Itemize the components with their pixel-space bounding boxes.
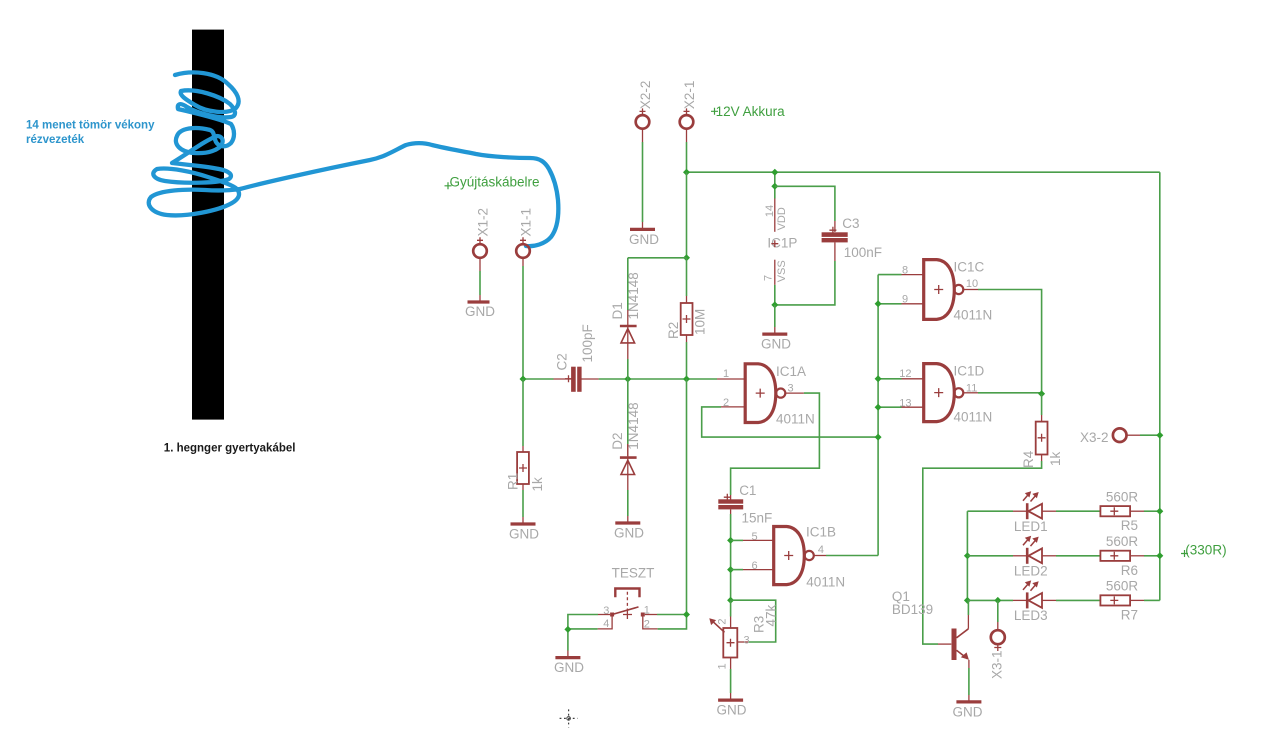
svg-text:4: 4 bbox=[818, 544, 824, 556]
svg-text:R7: R7 bbox=[1121, 607, 1138, 622]
wire node down to D2 bbox=[627, 379, 629, 456]
svg-text:R5: R5 bbox=[1121, 518, 1138, 533]
nand gate IC1A bbox=[717, 364, 815, 427]
wire LED anode bus bbox=[966, 511, 968, 600]
svg-text:D1: D1 bbox=[610, 302, 625, 319]
connector X1-1 bbox=[516, 208, 533, 258]
wire 12V bus horizontal bbox=[687, 171, 1160, 173]
capacitor C3 bbox=[822, 216, 882, 260]
svg-text:IC1D: IC1D bbox=[954, 363, 985, 378]
svg-text:GND: GND bbox=[717, 703, 747, 718]
svg-text:LED3: LED3 bbox=[1014, 608, 1048, 623]
junction X3-2/rail bbox=[1156, 432, 1163, 439]
connector X2-2 bbox=[636, 81, 653, 129]
svg-text:47k: 47k bbox=[764, 604, 779, 626]
svg-text:R6: R6 bbox=[1121, 563, 1138, 578]
green label (330R) bbox=[1181, 543, 1227, 558]
svg-text:100nF: 100nF bbox=[844, 245, 882, 260]
junction TESZT left bbox=[564, 626, 571, 633]
wire to GND under IC1P bbox=[774, 305, 776, 334]
wire TESZT right to rail bbox=[657, 615, 687, 629]
svg-text:(330R): (330R) bbox=[1185, 543, 1226, 558]
svg-text:GND: GND bbox=[629, 232, 659, 247]
ground GND under R1 bbox=[509, 524, 539, 541]
svg-text:15nF: 15nF bbox=[742, 511, 773, 526]
wire X1-1 down to node bbox=[522, 258, 524, 379]
junction pin9/bus bbox=[875, 300, 882, 307]
svg-text:1: 1 bbox=[717, 663, 729, 669]
svg-text:GND: GND bbox=[465, 304, 495, 319]
svg-text:2: 2 bbox=[717, 618, 729, 624]
junction LED3 row / collector bbox=[964, 597, 971, 604]
svg-text:LED2: LED2 bbox=[1014, 564, 1048, 579]
svg-text:4011N: 4011N bbox=[954, 409, 993, 424]
wire right vertical 12V rail bbox=[1159, 172, 1161, 600]
ground GND under TESZT bbox=[554, 658, 584, 675]
LED LED1 bbox=[967, 491, 1056, 534]
wire R3 pin2 up to node bbox=[730, 600, 732, 616]
svg-text:TESZT: TESZT bbox=[612, 566, 655, 581]
svg-text:4011N: 4011N bbox=[776, 411, 815, 426]
resistor R7 bbox=[1056, 579, 1160, 623]
wire Q1 collector bbox=[967, 600, 968, 615]
svg-text:560R: 560R bbox=[1106, 534, 1139, 549]
wire X3-2 to rail bbox=[1127, 434, 1160, 436]
svg-text:1k: 1k bbox=[530, 477, 545, 492]
connector X1-2 bbox=[473, 208, 490, 258]
svg-text:1N4148: 1N4148 bbox=[626, 402, 641, 449]
wire X1-2 to GND bbox=[479, 258, 481, 302]
junction R5/rail bbox=[1156, 508, 1163, 515]
junction feedback/bus bbox=[875, 434, 882, 441]
svg-text:rézvezeték: rézvezeték bbox=[26, 134, 85, 146]
junction VDD/C3 bbox=[771, 183, 778, 190]
ground GND under D2 bbox=[614, 523, 644, 540]
wire bus to VDD bbox=[774, 172, 776, 198]
power symbol IC1P VDD pin 14 bbox=[764, 199, 797, 251]
junction node at R2 bbox=[683, 376, 690, 383]
junction R3 node bbox=[727, 597, 734, 604]
wire IC1B pin6 bbox=[731, 569, 743, 571]
junction X3-1 tap bbox=[994, 597, 1001, 604]
wire C3 bottom branch bbox=[775, 242, 835, 305]
svg-text:560R: 560R bbox=[1106, 489, 1139, 504]
junction TESZT right bbox=[683, 611, 690, 618]
potentiometer R3 bbox=[709, 604, 778, 669]
svg-text:14: 14 bbox=[764, 205, 776, 217]
junction pin13/bus bbox=[875, 404, 882, 411]
svg-text:D2: D2 bbox=[610, 432, 625, 449]
nand gate IC1B bbox=[743, 524, 845, 589]
green label: Gyujtaskabelre bbox=[445, 175, 540, 190]
svg-text:X3-2: X3-2 bbox=[1080, 430, 1109, 445]
nand gate IC1D bbox=[899, 363, 992, 424]
wire into R2 bbox=[686, 258, 688, 303]
ground GND under X2-2 bbox=[629, 229, 659, 246]
svg-text:R4: R4 bbox=[1021, 450, 1036, 468]
ground GND under Q1 bbox=[953, 702, 983, 719]
origin crosshair bbox=[560, 709, 578, 727]
svg-text:10M: 10M bbox=[693, 309, 708, 335]
capacitor C1 bbox=[718, 483, 772, 526]
nand gate IC1C bbox=[902, 259, 993, 322]
wire VSS to GND node bbox=[774, 285, 776, 305]
svg-text:R1: R1 bbox=[506, 473, 521, 490]
svg-text:X3-1: X3-1 bbox=[990, 650, 1005, 679]
wire IC1B output to input bus bbox=[826, 555, 878, 557]
ground GND under X1-2 bbox=[465, 302, 495, 319]
annotation text: 14 menet (blue) bbox=[26, 120, 155, 146]
svg-text:560R: 560R bbox=[1106, 579, 1139, 594]
wire R4 to Q1 base bbox=[923, 455, 1042, 645]
svg-text:R2: R2 bbox=[666, 322, 681, 339]
wire IC1D output bbox=[978, 392, 1042, 394]
svg-text:Gyújtáskábelre: Gyújtáskábelre bbox=[450, 175, 540, 190]
ground GND under IC1P bbox=[761, 334, 791, 351]
svg-text:7: 7 bbox=[763, 275, 775, 281]
svg-text:X1-1: X1-1 bbox=[519, 208, 534, 237]
wire Q1 emitter to GND bbox=[968, 660, 970, 702]
wire R1 to GND bbox=[522, 484, 524, 524]
svg-text:VDD: VDD bbox=[776, 207, 788, 230]
spark plug cable (black bar) bbox=[192, 30, 224, 420]
wire TESZT left to GND bbox=[568, 615, 598, 658]
svg-text:100pF: 100pF bbox=[580, 324, 595, 362]
svg-text:C1: C1 bbox=[739, 483, 756, 498]
wire pin13 bbox=[878, 406, 901, 408]
junction C1/pin5 bbox=[727, 537, 734, 544]
resistor R6 bbox=[1056, 534, 1160, 578]
svg-text:X1-2: X1-2 bbox=[476, 208, 491, 237]
svg-text:4011N: 4011N bbox=[806, 574, 845, 589]
junction D1-top node bbox=[683, 254, 690, 261]
connector X3-2 bbox=[1080, 428, 1126, 444]
wire D1 top bbox=[627, 258, 629, 310]
wire C3 top branch bbox=[775, 186, 835, 232]
svg-text:IC1A: IC1A bbox=[776, 364, 806, 379]
diode D1 bbox=[610, 272, 641, 359]
LED LED2 bbox=[967, 536, 1056, 579]
wire X2-1 down to bus bbox=[686, 129, 688, 172]
wire D1 top horizontal bbox=[628, 257, 687, 259]
LED LED3 bbox=[967, 580, 1056, 623]
resistor R5 bbox=[1056, 489, 1160, 533]
junction X2-1/bus bbox=[683, 169, 690, 176]
connector X2-1 bbox=[680, 81, 697, 129]
junction bus/IC1P bbox=[771, 169, 778, 176]
ground GND under R3 bbox=[717, 700, 747, 717]
wire gate input bus vertical bbox=[877, 275, 879, 556]
wire pin8 bbox=[878, 274, 901, 276]
svg-text:C2: C2 bbox=[555, 353, 570, 370]
wire R2 bottom to node bbox=[686, 335, 688, 379]
svg-text:BD139: BD139 bbox=[892, 602, 933, 617]
power symbol IC1P VSS pin 7 bbox=[763, 260, 789, 285]
junction node at X1-1/R1 bbox=[520, 376, 527, 383]
svg-text:1. hegnger gyertyakábel: 1. hegnger gyertyakábel bbox=[164, 443, 296, 455]
connector X3-1 bbox=[990, 600, 1005, 679]
wire main node row bbox=[523, 378, 717, 380]
pickup coil wire (blue freehand) bbox=[149, 72, 559, 246]
wire D2 to GND bbox=[627, 490, 629, 523]
wire pin9 bbox=[878, 303, 901, 305]
wire X2-2 to GND bbox=[642, 129, 644, 230]
wire C1 bottom to IC1B inputs bbox=[730, 509, 732, 600]
junction R6/rail bbox=[1156, 552, 1163, 559]
svg-text:C3: C3 bbox=[842, 216, 859, 231]
transistor Q1 bbox=[892, 589, 969, 660]
wire to R4 bbox=[1041, 394, 1043, 422]
svg-text:IC1C: IC1C bbox=[954, 259, 985, 274]
wire X2-1 node down to D1 row bbox=[686, 172, 688, 258]
junction pin12/bus bbox=[875, 375, 882, 382]
switch TESZT bbox=[598, 566, 658, 631]
svg-text:3: 3 bbox=[744, 634, 750, 646]
svg-text:4: 4 bbox=[603, 618, 609, 630]
green label: 12V Akkura bbox=[711, 104, 785, 119]
svg-text:GND: GND bbox=[554, 660, 584, 675]
svg-text:1: 1 bbox=[723, 368, 729, 380]
resistor R1 bbox=[506, 452, 546, 492]
svg-text:12V Akkura: 12V Akkura bbox=[716, 104, 786, 119]
svg-text:GND: GND bbox=[509, 526, 539, 541]
svg-text:4011N: 4011N bbox=[954, 307, 993, 322]
svg-text:14 menet tömör vékony: 14 menet tömör vékony bbox=[26, 120, 155, 132]
diode D2 bbox=[610, 402, 641, 490]
svg-text:10: 10 bbox=[966, 278, 978, 290]
svg-text:1k: 1k bbox=[1048, 451, 1063, 466]
junction outputs/R4 bbox=[1038, 390, 1045, 397]
wire node to TESZT right side bbox=[686, 379, 688, 615]
svg-text:IC1B: IC1B bbox=[806, 524, 836, 539]
svg-text:X2-1: X2-1 bbox=[682, 81, 697, 110]
wire IC1A pin2 feedback bbox=[702, 407, 878, 437]
junction pin6 bbox=[727, 566, 734, 573]
wire R3 pin1 to GND bbox=[730, 669, 732, 700]
wire R3 wiper loop bbox=[731, 600, 776, 642]
svg-text:VSS: VSS bbox=[776, 260, 788, 282]
annotation text: 1. hegnger gyertyakabel bbox=[164, 443, 296, 455]
junction VSS/C3/GND bbox=[771, 301, 778, 308]
wire IC1C output down bbox=[978, 290, 1042, 394]
capacitor C2 bbox=[554, 324, 599, 392]
wire node down to R1 bbox=[522, 379, 524, 452]
wire pin12 bbox=[878, 378, 901, 380]
svg-text:GND: GND bbox=[761, 337, 791, 352]
wire D1 bottom to node bbox=[627, 359, 629, 379]
wire IC1B pin5 bbox=[731, 539, 743, 541]
junction LED2 row bbox=[964, 552, 971, 559]
svg-text:X2-2: X2-2 bbox=[638, 81, 653, 110]
junction node at D1/D2 bbox=[624, 376, 631, 383]
svg-text:GND: GND bbox=[614, 525, 644, 540]
svg-text:LED1: LED1 bbox=[1014, 519, 1048, 534]
wire IC1A output to C1 bbox=[731, 393, 820, 499]
resistor R2 bbox=[666, 303, 708, 339]
svg-text:GND: GND bbox=[953, 704, 983, 719]
resistor R4 bbox=[1021, 422, 1063, 468]
